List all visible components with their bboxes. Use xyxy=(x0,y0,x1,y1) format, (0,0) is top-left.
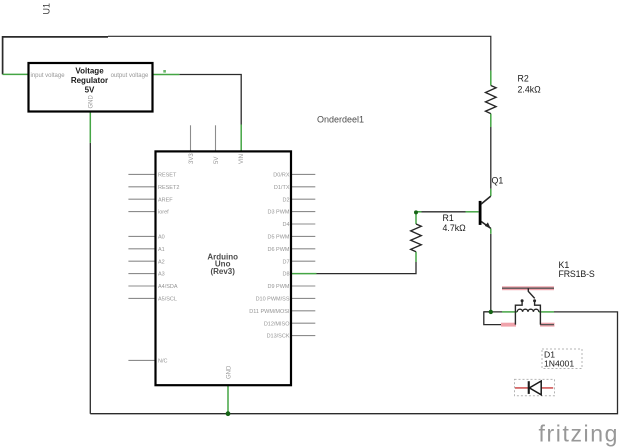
svg-text:D9 PWM: D9 PWM xyxy=(268,284,290,290)
svg-text:A1: A1 xyxy=(158,247,165,253)
svg-text:D10 PWM/SS: D10 PWM/SS xyxy=(256,297,290,303)
svg-text:output voltage: output voltage xyxy=(111,73,149,79)
svg-text:Voltage: Voltage xyxy=(75,67,104,76)
svg-text:AREF: AREF xyxy=(158,197,173,203)
svg-text:3V3: 3V3 xyxy=(189,153,195,164)
svg-text:D6 PWM: D6 PWM xyxy=(268,247,290,253)
svg-text:R1: R1 xyxy=(443,213,454,223)
svg-text:Onderdeel1: Onderdeel1 xyxy=(317,115,364,125)
svg-text:Q1: Q1 xyxy=(492,176,504,186)
svg-text:GND: GND xyxy=(88,95,94,109)
svg-text:D12/MISO: D12/MISO xyxy=(264,321,290,327)
svg-text:N/C: N/C xyxy=(158,359,168,365)
svg-text:FRS1B-S: FRS1B-S xyxy=(559,269,595,279)
svg-text:A0: A0 xyxy=(158,235,165,241)
svg-text:R2: R2 xyxy=(518,74,529,84)
svg-text:GND: GND xyxy=(226,365,232,379)
svg-text:5V: 5V xyxy=(85,85,95,94)
svg-text:D3 PWM: D3 PWM xyxy=(268,210,290,216)
svg-text:A5/SCL: A5/SCL xyxy=(158,297,177,303)
svg-text:RESET: RESET xyxy=(158,173,177,179)
svg-text:D8: D8 xyxy=(282,272,289,278)
svg-text:D2: D2 xyxy=(282,197,289,203)
svg-text:A4/SDA: A4/SDA xyxy=(158,284,178,290)
svg-text:ioref: ioref xyxy=(158,210,169,216)
svg-text:A2: A2 xyxy=(158,259,165,265)
svg-text:input voltage: input voltage xyxy=(31,73,66,79)
svg-text:VIN: VIN xyxy=(239,154,245,164)
svg-text:2.4kΩ: 2.4kΩ xyxy=(518,85,542,95)
svg-text:D7: D7 xyxy=(282,259,289,265)
svg-text:D5 PWM: D5 PWM xyxy=(268,235,290,241)
svg-text:D0/RX: D0/RX xyxy=(273,173,290,179)
svg-text:D1/TX: D1/TX xyxy=(274,185,290,191)
svg-text:A3: A3 xyxy=(158,272,165,278)
svg-text:U1: U1 xyxy=(42,3,52,15)
svg-text:D11 PWM/MOSI: D11 PWM/MOSI xyxy=(249,309,290,315)
svg-text:RESET2: RESET2 xyxy=(158,185,179,191)
svg-text:(Rev3): (Rev3) xyxy=(210,267,235,276)
svg-text:4.7kΩ: 4.7kΩ xyxy=(443,223,467,233)
svg-text:Regulator: Regulator xyxy=(71,76,108,85)
svg-text:D13/SCK: D13/SCK xyxy=(267,334,290,340)
svg-text:D4: D4 xyxy=(282,222,289,228)
svg-text:5V: 5V xyxy=(214,157,220,164)
svg-text:1N4001: 1N4001 xyxy=(544,359,574,369)
svg-text:fritzing: fritzing xyxy=(539,421,620,447)
